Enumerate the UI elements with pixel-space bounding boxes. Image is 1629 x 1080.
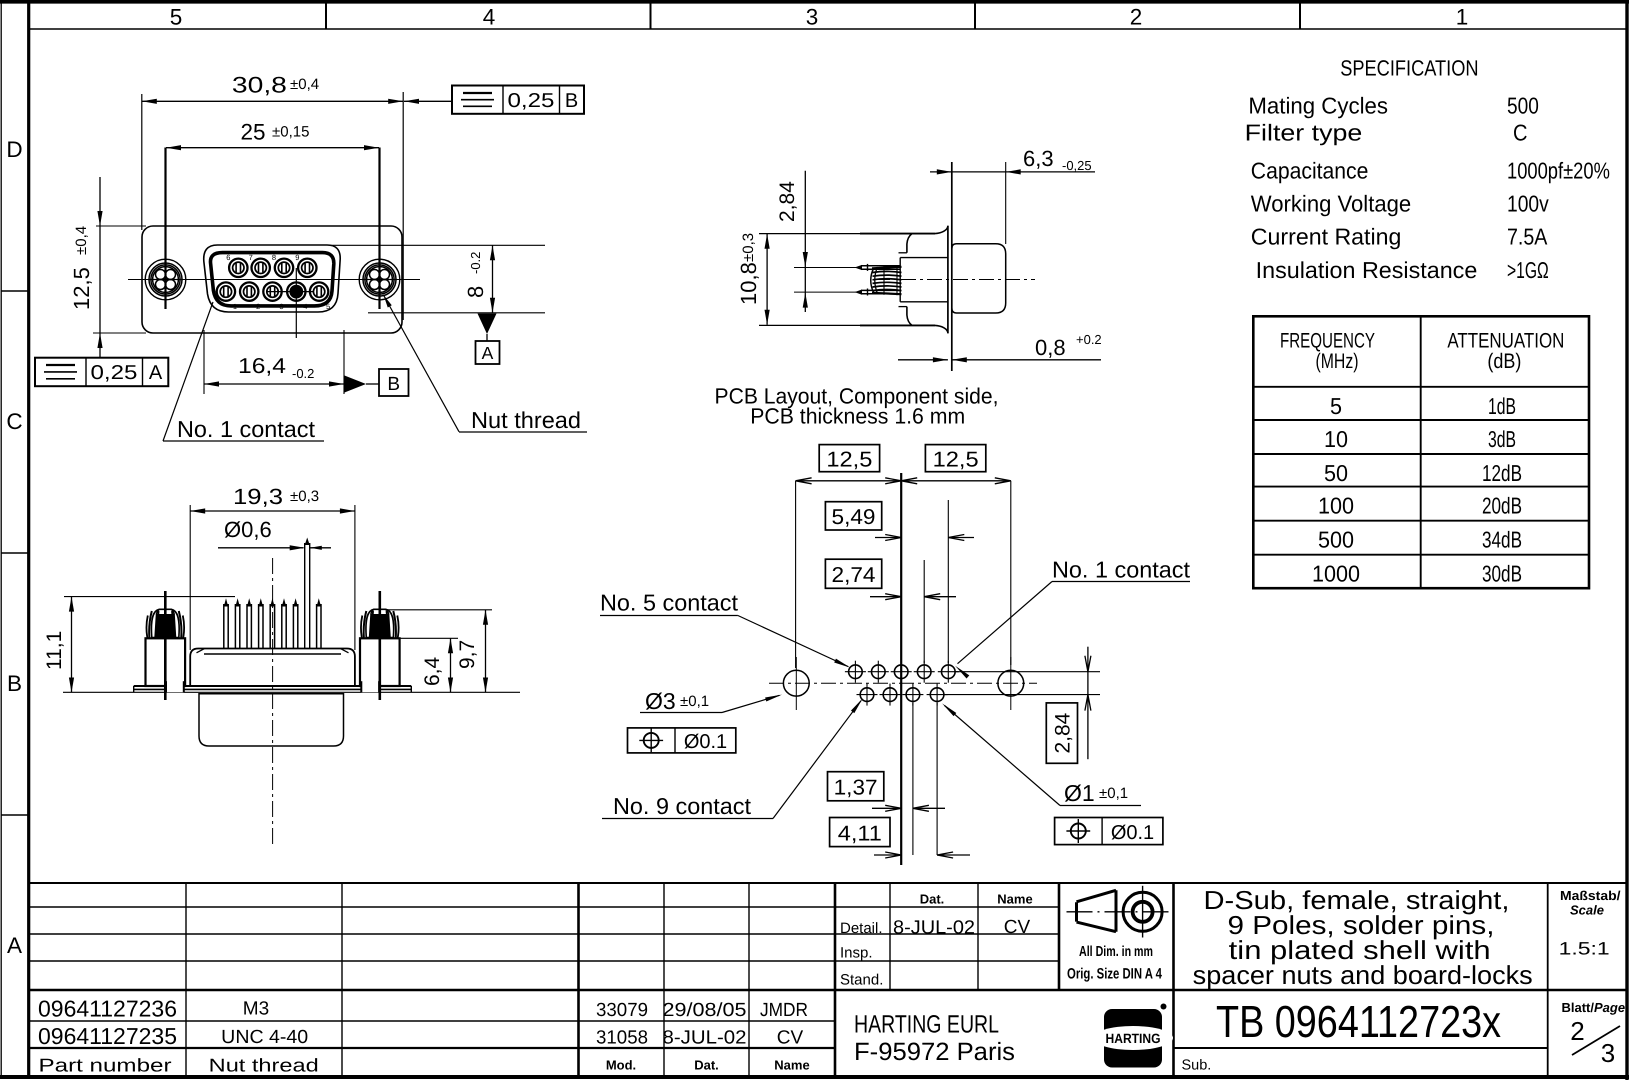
svg-text:2: 2 — [1570, 1016, 1584, 1046]
svg-text:Ø0.1: Ø0.1 — [1111, 822, 1154, 844]
svg-text:PCB thickness 1.6 mm: PCB thickness 1.6 mm — [750, 404, 965, 429]
side view shell bell outline — [907, 234, 912, 253]
D-shell outer outline — [204, 245, 340, 312]
svg-text:CV: CV — [777, 1028, 804, 1049]
svg-text:No. 1 contact: No. 1 contact — [1052, 557, 1191, 583]
svg-text:31058: 31058 — [596, 1028, 648, 1049]
svg-text:30,8: 30,8 — [232, 73, 287, 98]
svg-text:1: 1 — [233, 302, 237, 311]
left nut centerline — [164, 148, 166, 310]
svg-text:4: 4 — [303, 302, 307, 311]
svg-text:0,25: 0,25 — [91, 362, 138, 384]
svg-text:±0,3: ±0,3 — [290, 488, 319, 505]
svg-text:10: 10 — [1324, 426, 1348, 452]
dimension 6,4 — [400, 637, 458, 639]
front view horizontal centerline — [128, 279, 420, 281]
rear view lower wedge — [199, 694, 344, 746]
svg-text:Ø0.1: Ø0.1 — [684, 731, 727, 753]
pin holder bars — [867, 264, 869, 271]
board-lock centerline — [378, 591, 381, 700]
svg-text:3: 3 — [1601, 1038, 1615, 1068]
svg-text:A: A — [7, 933, 22, 958]
datum B symbol — [345, 376, 367, 393]
dimension box 2,74 — [825, 559, 881, 588]
svg-text:A: A — [482, 343, 494, 363]
svg-text:Blatt/: Blatt/ — [1562, 1000, 1595, 1015]
svg-text:B: B — [565, 90, 578, 112]
side view pins — [861, 265, 900, 267]
side view board-lock barrel — [952, 244, 1006, 313]
dimension 16,4 -0,2 — [203, 330, 205, 394]
svg-text:HARTING: HARTING — [1106, 1031, 1161, 1046]
board-lock knurled dome — [151, 609, 179, 637]
dimension 8 -0,2 — [330, 244, 545, 246]
pcb contact holes bottom row — [860, 688, 874, 702]
dimension 9,7 — [385, 609, 492, 611]
rear view pins — [223, 604, 225, 649]
side view centerline — [875, 279, 1035, 281]
svg-text:>1GΩ: >1GΩ — [1507, 257, 1549, 283]
pcb hole diameter3 left — [783, 670, 809, 696]
svg-text:Mod.: Mod. — [606, 1058, 636, 1073]
svg-text:UNC 4-40: UNC 4-40 — [221, 1027, 308, 1048]
svg-text:3: 3 — [279, 302, 283, 311]
dimension box 2,84 rotated — [1046, 703, 1077, 763]
svg-text:B: B — [7, 671, 22, 696]
dimension box 5,49 — [825, 502, 881, 530]
HARTING logo — [1104, 1009, 1162, 1068]
svg-text:Insulation Resistance: Insulation Resistance — [1256, 257, 1478, 283]
svg-text:16,4: 16,4 — [238, 354, 286, 378]
svg-text:8-JUL-02: 8-JUL-02 — [893, 917, 975, 938]
svg-text:12,5: 12,5 — [933, 448, 979, 472]
leader to 0,25 B frame — [404, 100, 452, 102]
dimension 10,8 +-0,3 — [759, 233, 935, 235]
svg-text:Mating Cycles: Mating Cycles — [1248, 93, 1388, 119]
title block grid — [29, 882, 1626, 884]
svg-text:±0,4: ±0,4 — [290, 76, 319, 93]
svg-text:09641127235: 09641127235 — [38, 1023, 177, 1049]
board-lock shank — [361, 681, 379, 692]
side view insulator body — [900, 257, 948, 259]
svg-text:0,8: 0,8 — [1035, 335, 1066, 360]
svg-text:(dB): (dB) — [1487, 350, 1521, 373]
pcb contact holes top row — [849, 665, 863, 679]
svg-text:100: 100 — [1318, 493, 1354, 519]
svg-text:25: 25 — [241, 120, 266, 145]
rear view center line — [272, 558, 274, 848]
svg-text:Name: Name — [997, 892, 1032, 907]
pcb layout horizontal centerline — [769, 682, 1037, 684]
svg-text:100v: 100v — [1507, 191, 1549, 217]
board-lock body — [360, 638, 400, 686]
svg-text:ATTENUATION: ATTENUATION — [1447, 329, 1564, 352]
svg-text:0,25: 0,25 — [508, 90, 555, 112]
svg-text:FREQUENCY: FREQUENCY — [1280, 329, 1375, 352]
dimension box 4,11 — [830, 818, 890, 847]
position frame diameter 0.1 left — [628, 728, 736, 753]
svg-text:Ø3: Ø3 — [645, 688, 676, 714]
dimension 19,3 +-0,3 — [189, 505, 191, 650]
side view clinch spring knurl — [871, 269, 874, 293]
svg-text:A: A — [149, 362, 163, 384]
svg-text:7.5A: 7.5A — [1507, 224, 1548, 250]
rear view flange plate — [134, 685, 412, 687]
side view PCB surface line — [951, 162, 953, 371]
side view flange sheet — [947, 226, 949, 333]
svg-text:Ø0,6: Ø0,6 — [224, 517, 272, 542]
projection symbol circles — [1123, 892, 1162, 931]
svg-text:500: 500 — [1318, 527, 1354, 553]
svg-text:10,8: 10,8 — [736, 262, 761, 305]
dimension 6,3 -0,25 — [1005, 162, 1007, 244]
pcb hole diameter3 right — [998, 670, 1024, 696]
svg-text:spacer nuts and board-locks: spacer nuts and board-locks — [1193, 960, 1533, 990]
svg-text:±0,1: ±0,1 — [1099, 785, 1128, 802]
right mounting nut — [359, 259, 400, 300]
svg-text:-0.2: -0.2 — [468, 252, 483, 274]
board-lock shank — [166, 681, 184, 692]
svg-text:No. 5 contact: No. 5 contact — [600, 590, 739, 616]
svg-text:50: 50 — [1324, 460, 1348, 486]
svg-text:500: 500 — [1507, 93, 1539, 119]
svg-text:All Dim. in mm: All Dim. in mm — [1079, 944, 1153, 960]
board-lock knurled dome — [366, 609, 394, 637]
dimension line 2,84 vertical — [1087, 647, 1089, 760]
svg-text:1,37: 1,37 — [834, 776, 878, 800]
svg-text:B: B — [387, 374, 400, 395]
svg-text:No. 9 contact: No. 9 contact — [613, 793, 752, 819]
svg-text:Insp.: Insp. — [840, 945, 873, 962]
dimension line 12,5 pair — [796, 480, 1011, 482]
contact bottom row — [217, 282, 235, 300]
svg-text:Current Rating: Current Rating — [1251, 224, 1402, 250]
dimension 12,5 +-0,4 — [96, 225, 146, 227]
svg-text:F-95972 Paris: F-95972 Paris — [854, 1038, 1015, 1066]
svg-text:Scale: Scale — [1570, 903, 1604, 918]
svg-text:C: C — [1513, 120, 1528, 146]
datum A symbol — [478, 314, 497, 335]
svg-text:5,49: 5,49 — [832, 505, 876, 529]
svg-text:CV: CV — [1004, 917, 1031, 938]
dimension boxes 12,5 12,5 — [819, 445, 879, 472]
svg-text:2: 2 — [1130, 5, 1143, 30]
left mounting nut — [145, 259, 186, 300]
contact top row — [229, 259, 247, 277]
svg-text:2: 2 — [256, 302, 260, 311]
svg-text:Nut thread: Nut thread — [471, 407, 581, 433]
svg-text:5: 5 — [1330, 393, 1342, 419]
svg-text:±0,3: ±0,3 — [740, 233, 757, 262]
svg-text:C: C — [6, 409, 22, 434]
rear view insulator body — [190, 649, 355, 687]
dimension 25 +-0,15 — [166, 147, 379, 149]
filled contact crosshair — [295, 268, 297, 338]
svg-text:1.5:1: 1.5:1 — [1559, 939, 1610, 959]
svg-text:Ø1: Ø1 — [1064, 780, 1095, 806]
svg-text:M3: M3 — [243, 999, 269, 1020]
svg-text:±0,1: ±0,1 — [680, 693, 709, 710]
svg-text:6: 6 — [226, 253, 230, 262]
svg-text:1dB: 1dB — [1488, 393, 1516, 419]
svg-text:12,5: 12,5 — [826, 448, 872, 472]
svg-text:Filter type: Filter type — [1245, 120, 1363, 146]
svg-text:1000: 1000 — [1312, 561, 1360, 587]
svg-text:4,11: 4,11 — [838, 822, 882, 846]
svg-text:Stand.: Stand. — [840, 972, 883, 989]
svg-text:5: 5 — [170, 5, 183, 30]
svg-text:9,7: 9,7 — [456, 640, 479, 669]
svg-text:1000pf±20%: 1000pf±20% — [1507, 158, 1610, 184]
front view flange outline — [142, 226, 402, 333]
dimension 0,8 +0,2 — [898, 359, 948, 361]
svg-text:29/08/05: 29/08/05 — [663, 1000, 747, 1021]
svg-text:Sub.: Sub. — [1182, 1058, 1212, 1074]
svg-text:11,1: 11,1 — [43, 631, 66, 670]
svg-text:No. 1 contact: No. 1 contact — [177, 416, 316, 442]
svg-text:34dB: 34dB — [1482, 527, 1522, 553]
zone letter rows — [1, 290, 29, 292]
svg-text:JMDR: JMDR — [760, 1000, 808, 1021]
board-lock body — [146, 638, 186, 686]
svg-text:1: 1 — [1456, 5, 1469, 30]
dimension box 1,37 — [828, 772, 884, 801]
svg-text:8-JUL-02: 8-JUL-02 — [663, 1028, 747, 1049]
position frame diameter 0.1 right — [1055, 818, 1163, 845]
pcb layout center axis — [900, 473, 902, 865]
rear view PCB baseline — [63, 691, 520, 693]
svg-text:6,4: 6,4 — [421, 656, 444, 686]
svg-text:+0.2: +0.2 — [1076, 332, 1102, 347]
svg-text:SPECIFICATION: SPECIFICATION — [1340, 56, 1478, 81]
svg-text:Part number: Part number — [39, 1055, 172, 1076]
svg-text:Dat.: Dat. — [920, 892, 945, 907]
svg-text:4: 4 — [483, 5, 496, 30]
svg-text:-0.2: -0.2 — [292, 366, 314, 381]
svg-text:30dB: 30dB — [1482, 561, 1522, 587]
parallelism frame 0,25 A — [35, 358, 168, 387]
svg-text:Maßstab/: Maßstab/ — [1560, 888, 1621, 903]
svg-text:Orig. Size DIN A 4: Orig. Size DIN A 4 — [1067, 966, 1162, 983]
svg-text:19,3: 19,3 — [233, 484, 283, 509]
svg-text:8: 8 — [463, 286, 488, 298]
svg-text:±0,4: ±0,4 — [73, 226, 90, 255]
svg-text:(MHz): (MHz) — [1316, 350, 1359, 373]
board-lock centerline — [164, 591, 167, 700]
svg-text:Working Voltage: Working Voltage — [1251, 191, 1411, 217]
svg-text:3dB: 3dB — [1488, 426, 1516, 452]
svg-text:12dB: 12dB — [1482, 460, 1522, 486]
svg-text:-0,25: -0,25 — [1062, 158, 1092, 173]
svg-text:±0,15: ±0,15 — [272, 124, 309, 141]
svg-text:TB 0964112723x: TB 0964112723x — [1216, 996, 1501, 1047]
svg-text:12,5: 12,5 — [69, 267, 94, 310]
svg-text:2,84: 2,84 — [1052, 712, 1075, 753]
leader Nut thread — [384, 295, 460, 432]
projection symbol cone — [1077, 890, 1117, 931]
dimension 30,8 +-0,4 — [141, 94, 143, 230]
zone header band — [30, 28, 1626, 30]
svg-text:20dB: 20dB — [1482, 493, 1522, 519]
svg-text:Dat.: Dat. — [694, 1058, 719, 1073]
svg-text:HARTING EURL: HARTING EURL — [854, 1010, 999, 1038]
svg-text:Page: Page — [1594, 1000, 1625, 1015]
svg-text:Nut thread: Nut thread — [209, 1055, 319, 1076]
svg-text:6,3: 6,3 — [1023, 146, 1054, 171]
svg-text:7: 7 — [249, 253, 253, 262]
svg-text:3: 3 — [806, 5, 819, 30]
svg-text:5: 5 — [326, 302, 330, 311]
svg-text:Capacitance: Capacitance — [1251, 158, 1369, 184]
parallelism frame 0,25 B — [452, 86, 584, 114]
D-shell inner outline — [210, 253, 333, 306]
frequency attenuation table — [1253, 316, 1589, 588]
svg-text:Detail.: Detail. — [840, 920, 883, 937]
svg-text:Name: Name — [774, 1058, 809, 1073]
dimension 11,1 — [64, 596, 235, 598]
leader No. 1 contact — [163, 302, 213, 441]
svg-text:09641127236: 09641127236 — [38, 996, 177, 1022]
svg-text:2,74: 2,74 — [832, 563, 876, 587]
svg-text:8: 8 — [272, 253, 276, 262]
right nut centerline — [378, 148, 380, 310]
svg-text:33079: 33079 — [596, 1000, 648, 1021]
svg-text:D: D — [6, 137, 22, 162]
svg-text:2,84: 2,84 — [776, 181, 799, 222]
svg-text:9: 9 — [295, 253, 299, 262]
dimension 2,84 side view — [804, 171, 806, 312]
